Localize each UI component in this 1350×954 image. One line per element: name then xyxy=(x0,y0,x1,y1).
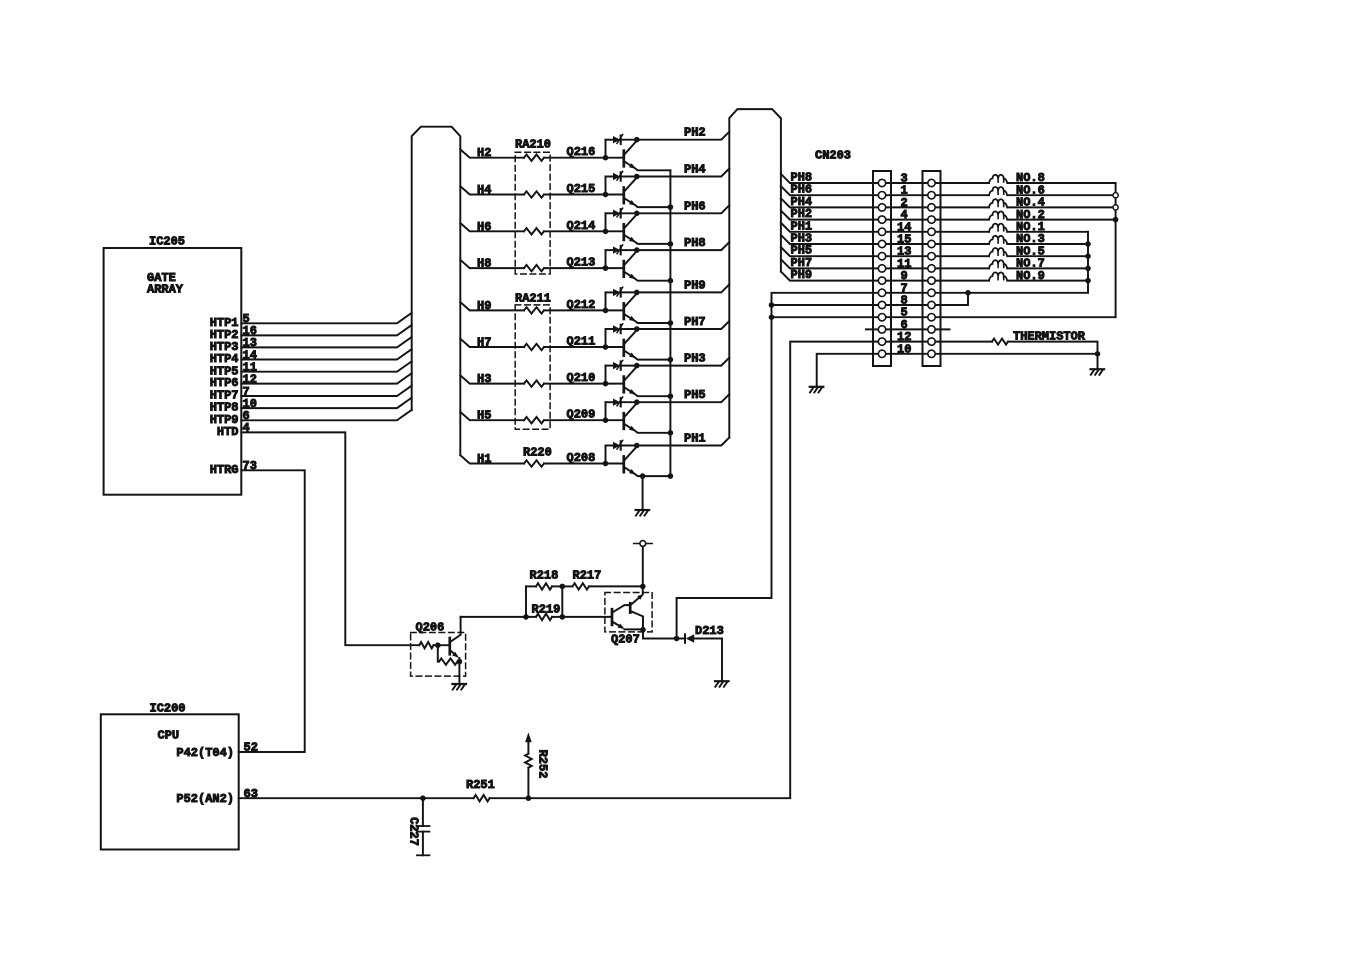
wire PH4 (collector to trunk) xyxy=(637,163,730,177)
resistor element (H9) xyxy=(524,307,544,313)
transistor Q214 with base-collector diode xyxy=(567,208,671,244)
wire HTP2 pin 16 xyxy=(241,324,411,338)
inductor NO.5 xyxy=(941,244,1089,258)
wire HTP8 pin 10 xyxy=(241,397,411,411)
ground (D213) xyxy=(715,681,729,687)
svg-text:R220: R220 xyxy=(523,446,552,460)
wire PH1 (collector to trunk) xyxy=(637,432,730,446)
svg-text:PH3: PH3 xyxy=(684,352,706,366)
svg-text:H6: H6 xyxy=(477,220,491,234)
ground (transistor array emitters) xyxy=(636,510,650,516)
svg-text:PH9: PH9 xyxy=(791,268,813,282)
svg-text:Q216: Q216 xyxy=(567,145,596,159)
wire H3 xyxy=(460,372,605,386)
wire PH7 to CN203 xyxy=(781,256,873,270)
svg-text:H9: H9 xyxy=(477,299,491,313)
wire PH6 (collector to trunk) xyxy=(637,199,730,213)
inductor NO.3 xyxy=(941,232,1089,246)
svg-text:R252: R252 xyxy=(535,750,549,779)
wire PH5 to CN203 xyxy=(781,244,873,258)
wire CN203 pin 12 to P52/R251 node xyxy=(528,342,873,799)
inductor NO.4 xyxy=(941,196,1114,210)
resistor R219 xyxy=(532,602,561,620)
svg-text:R217: R217 xyxy=(573,568,602,582)
svg-text:H4: H4 xyxy=(477,183,491,197)
svg-text:C227: C227 xyxy=(406,817,420,846)
resistor element (H4) xyxy=(524,191,544,197)
wire PH8 to CN203 xyxy=(781,171,873,185)
resistor element (H3) xyxy=(524,380,544,386)
svg-text:Q210: Q210 xyxy=(567,371,596,385)
wire H4 xyxy=(460,183,605,197)
svg-text:ARRAY: ARRAY xyxy=(147,283,184,297)
resistor R217 xyxy=(562,568,645,589)
connector CN203 xyxy=(815,149,950,367)
inductor NO.6 xyxy=(941,183,1114,197)
wire CN203 pin 10 (right) xyxy=(941,354,1098,369)
wire HTP6 pin 12 xyxy=(241,372,411,386)
svg-text:PH8: PH8 xyxy=(684,236,706,250)
wire CN203 pins 7,8,5 to Q207 collector node xyxy=(677,293,873,639)
svg-text:PH4: PH4 xyxy=(684,163,706,177)
ground (CN203 pin 10) xyxy=(810,387,824,393)
svg-text:10: 10 xyxy=(897,342,911,356)
transistor Q208 with base-collector diode xyxy=(567,440,671,476)
resistor R252 (pull-up with arrow) xyxy=(525,732,549,798)
wire HTP7 pin 7 xyxy=(241,385,411,399)
wire HTP5 pin 11 xyxy=(241,361,411,375)
IC U IC200 CPU xyxy=(101,701,239,849)
net rail (NO.1/3/5/7/9 to CN203 pin 7) xyxy=(941,232,1091,293)
wire HTP3 pin 13 xyxy=(241,336,411,350)
transistor Q212 with base-collector diode xyxy=(567,287,671,323)
svg-text:Q213: Q213 xyxy=(567,256,596,270)
resistor element (H2) xyxy=(524,155,544,161)
svg-text:H3: H3 xyxy=(477,372,491,386)
svg-text:H7: H7 xyxy=(477,336,491,350)
thermistor xyxy=(941,330,1101,357)
resistor R220 label xyxy=(523,446,552,460)
svg-text:PH5: PH5 xyxy=(684,388,706,402)
svg-text:PH2: PH2 xyxy=(684,126,706,140)
svg-text:P42(T04): P42(T04) xyxy=(176,746,234,760)
svg-text:RA210: RA210 xyxy=(515,138,551,152)
svg-text:Q215: Q215 xyxy=(567,182,596,196)
svg-text:Q207: Q207 xyxy=(611,633,640,647)
resistor R251 xyxy=(466,778,495,801)
wire PH3 to CN203 xyxy=(781,232,873,246)
wire P52 pin 63 xyxy=(239,787,532,801)
inductor NO.2 xyxy=(941,208,1116,222)
wire PH1 to CN203 xyxy=(781,219,873,233)
svg-text:Q208: Q208 xyxy=(567,451,596,465)
emitter ground rail xyxy=(640,170,673,510)
wire H2 xyxy=(460,146,605,160)
wire PH7 (collector to trunk) xyxy=(637,315,730,329)
svg-text:R218: R218 xyxy=(530,568,559,582)
svg-text:CN203: CN203 xyxy=(815,149,851,163)
wire CN203 pin 10 (left) to ground xyxy=(817,354,873,387)
svg-text:H1: H1 xyxy=(477,452,491,466)
resistor element (H7) xyxy=(524,344,544,350)
inductor NO.9 xyxy=(941,269,1089,283)
wire HTP4 pin 14 xyxy=(241,348,411,362)
wire PH4 to CN203 xyxy=(781,195,873,209)
transistor Q209 with base-collector diode xyxy=(567,397,671,433)
transistor Q211 with base-collector diode xyxy=(567,324,671,360)
wire H7 xyxy=(460,336,605,350)
svg-text:PH6: PH6 xyxy=(684,199,706,213)
wire H6 xyxy=(460,220,605,234)
wire H9 xyxy=(460,299,605,313)
svg-text:D213: D213 xyxy=(695,624,724,638)
wire HTD pin 4 to Q206 base xyxy=(241,421,419,645)
resistor element (H1) xyxy=(524,460,544,466)
inductor NO.7 xyxy=(941,257,1089,271)
transistor Q213 with base-collector diode xyxy=(567,245,671,281)
resistor network RA211 (dashed outline) xyxy=(515,291,551,429)
pin 52 (P42) xyxy=(244,741,258,755)
inductor NO.1 xyxy=(941,220,1089,234)
svg-text:Q214: Q214 xyxy=(567,219,596,233)
wire PH2 to CN203 xyxy=(781,207,873,221)
bus from IC205 HTP lines xyxy=(412,127,461,456)
inductor NO.8 xyxy=(941,171,1116,185)
wire H1 xyxy=(460,452,605,466)
diode D213 xyxy=(677,624,724,681)
wire CN203 pin 8 join to pin 7 xyxy=(941,290,971,305)
svg-text:HTRG: HTRG xyxy=(210,463,239,477)
capacitor C227 xyxy=(406,798,429,855)
transistor Q215 with base-collector diode xyxy=(567,171,671,207)
wire PH9 to CN203 xyxy=(781,268,873,282)
wire H8 xyxy=(460,257,605,271)
svg-text:H5: H5 xyxy=(477,409,491,423)
svg-text:HTD: HTD xyxy=(217,425,239,439)
transistor Q206 (digital, dashed outline) xyxy=(411,617,466,684)
resistor R218 xyxy=(526,568,565,589)
svg-text:Q206: Q206 xyxy=(416,621,445,635)
resistor network RA210 (dashed outline) xyxy=(515,138,551,274)
svg-text:Q209: Q209 xyxy=(567,408,596,422)
wire PH9 (collector to trunk) xyxy=(637,278,730,292)
svg-text:H2: H2 xyxy=(477,146,491,160)
svg-text:PH1: PH1 xyxy=(684,432,706,446)
supply terminal (open circle) xyxy=(634,541,653,587)
trunk bus to CN203 xyxy=(729,109,781,437)
svg-text:CPU: CPU xyxy=(158,729,180,743)
wire PH8 (collector to trunk) xyxy=(637,236,730,250)
ground (thermistor return) xyxy=(1091,369,1105,375)
svg-text:Q211: Q211 xyxy=(567,335,596,349)
wire PH3 (collector to trunk) xyxy=(637,352,730,366)
svg-text:Q212: Q212 xyxy=(567,298,596,312)
svg-text:IC205: IC205 xyxy=(149,235,185,249)
resistor element (H6) xyxy=(524,228,544,234)
resistor element (H5) xyxy=(524,417,544,423)
wire PH2 (collector to trunk) xyxy=(637,126,730,140)
resistor element (H8) xyxy=(524,265,544,271)
transistor Q210 with base-collector diode xyxy=(567,360,671,396)
svg-text:IC200: IC200 xyxy=(150,701,186,715)
IC U IC205 gate array xyxy=(104,235,242,495)
svg-text:R251: R251 xyxy=(466,778,495,792)
wire H5 xyxy=(460,409,605,423)
wire HTP1 pin 5 xyxy=(241,312,411,326)
svg-text:52: 52 xyxy=(244,741,258,755)
wire PH6 to CN203 xyxy=(781,183,873,197)
svg-text:PH7: PH7 xyxy=(684,315,706,329)
wire PH5 (collector to trunk) xyxy=(637,388,730,402)
net rail right (NO.8/NO.2 to CN203 pin 5) xyxy=(941,183,1119,317)
svg-text:P52(AN2): P52(AN2) xyxy=(176,792,234,806)
wire HTP9 pin 6 xyxy=(241,409,411,423)
wire HTRG pin 73 to IC200 P42 xyxy=(239,459,305,752)
wire Q206 collector to Q207 base xyxy=(461,586,612,619)
svg-text:H8: H8 xyxy=(477,257,491,271)
svg-text:RA211: RA211 xyxy=(515,291,551,305)
ground (Q206 emitter) xyxy=(452,684,466,690)
transistor Q207 (darlington, dashed outline) xyxy=(605,586,679,646)
svg-text:PH9: PH9 xyxy=(684,278,706,292)
transistor Q216 with base-collector diode xyxy=(567,135,671,171)
